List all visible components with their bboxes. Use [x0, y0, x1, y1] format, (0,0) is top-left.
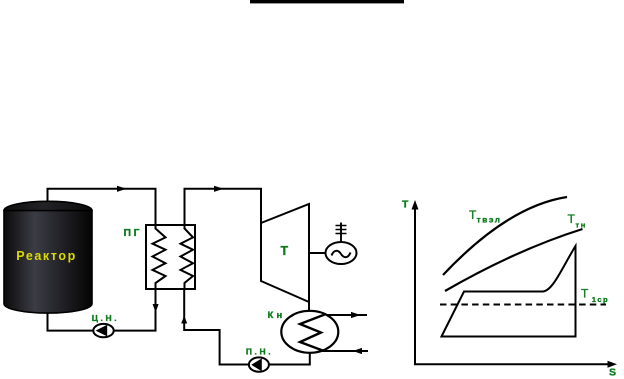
- svg-text:Реактор: Реактор: [16, 249, 77, 263]
- svg-text:Ц.Н.: Ц.Н.: [92, 313, 119, 323]
- svg-text:Т: Т: [402, 198, 409, 210]
- svg-text:Т: Т: [581, 287, 589, 301]
- svg-text:твэл: твэл: [477, 215, 502, 224]
- svg-text:1ср: 1ср: [592, 295, 609, 304]
- svg-text:П.Н.: П.Н.: [246, 346, 273, 356]
- svg-text:S: S: [609, 366, 616, 378]
- svg-text:ПГ: ПГ: [124, 227, 143, 239]
- svg-text:Кн: Кн: [268, 310, 286, 321]
- svg-text:Т: Т: [281, 244, 289, 258]
- svg-text:тн: тн: [576, 221, 587, 230]
- svg-text:Т: Т: [568, 212, 576, 226]
